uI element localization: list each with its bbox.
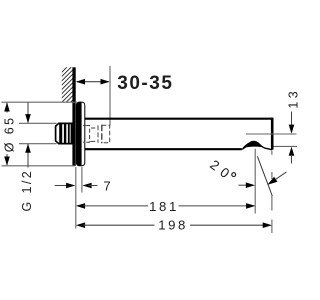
svg-text:30-35: 30-35 (117, 73, 173, 94)
wall hatching (58, 54, 80, 115)
svg-text:13: 13 (286, 88, 300, 109)
svg-text:Ø 65: Ø 65 (3, 115, 17, 152)
dimension 198 (76, 218, 272, 233)
svg-text:7: 7 (103, 178, 110, 193)
dimension 30-35 (76, 73, 174, 94)
extension lines bottom left (75, 167, 77, 229)
dimension line Ø65 (2, 102, 78, 166)
extension lines right (254, 149, 256, 214)
svg-text:198: 198 (158, 218, 188, 233)
dimension 7 (55, 178, 111, 193)
wall line (72, 67, 75, 166)
20 degree slant line (257, 156, 272, 196)
flange escutcheon (76, 102, 84, 166)
outlet crescent (242, 142, 262, 149)
supply pipe lines (19, 122, 57, 124)
angle arrows (239, 172, 287, 188)
svg-text:G 1/2: G 1/2 (20, 169, 34, 212)
spout body (85, 118, 272, 150)
threaded connector (56, 123, 73, 144)
extension line 30-35 (109, 66, 111, 126)
dimension G 1/2 (20, 103, 34, 212)
hidden detail dashes (83, 125, 110, 144)
svg-text:181: 181 (149, 199, 179, 214)
dimension 13 (246, 88, 300, 164)
dimension 181 (76, 199, 255, 214)
